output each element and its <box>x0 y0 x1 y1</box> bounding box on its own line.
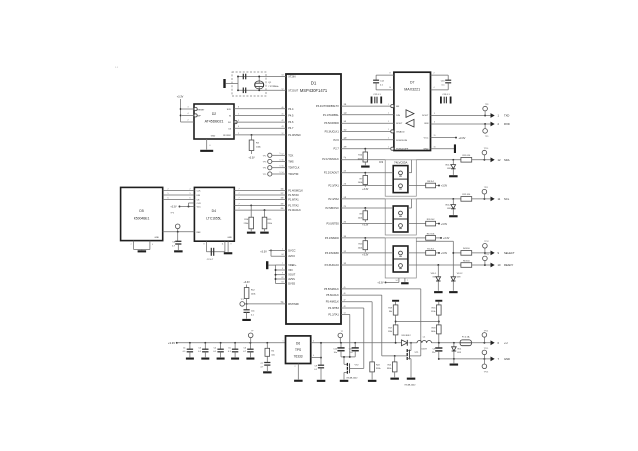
svg-text:VD1.1: VD1.1 <box>431 273 437 275</box>
svg-text:28: 28 <box>345 138 347 140</box>
svg-text:TP11: TP11 <box>484 187 488 189</box>
svg-text:SO: SO <box>228 122 231 124</box>
svg-text:2: 2 <box>295 366 296 368</box>
svg-text:6: 6 <box>168 197 169 199</box>
svg-text:GND: GND <box>211 136 216 138</box>
svg-text:XT2OUT: XT2OUT <box>288 88 298 92</box>
svg-text:D1: D1 <box>311 81 317 86</box>
svg-text:LTC1655L: LTC1655L <box>206 217 221 221</box>
svg-text:20: 20 <box>281 208 283 210</box>
svg-text:6: 6 <box>190 197 191 199</box>
svg-text:FORCEON: FORCEON <box>396 140 407 142</box>
svg-text:5: 5 <box>280 172 281 174</box>
svg-text:P1.0/STE0: P1.0/STE0 <box>288 133 301 137</box>
svg-text:GND: GND <box>227 237 232 239</box>
svg-text:R6 610: R6 610 <box>463 260 471 262</box>
svg-text:18: 18 <box>281 197 283 199</box>
svg-text:2: 2 <box>345 222 346 224</box>
svg-text:F1 0.1A: F1 0.1A <box>462 336 470 339</box>
svg-text:RST/NMI: RST/NMI <box>288 302 299 306</box>
svg-text:TP10: TP10 <box>484 148 489 150</box>
svg-text:7: 7 <box>407 280 408 282</box>
svg-text:SDA: SDA <box>504 158 510 162</box>
svg-text:11: 11 <box>345 104 347 106</box>
svg-text:P5.6/ACLK: P5.6/ACLK <box>326 293 339 297</box>
svg-text:SELECT: SELECT <box>504 251 515 255</box>
svg-text:8: 8 <box>238 107 239 109</box>
svg-text:7.3728MHz: 7.3728MHz <box>268 86 278 88</box>
svg-text:GND: GND <box>155 237 160 239</box>
svg-text:5: 5 <box>280 159 281 161</box>
svg-text:6: 6 <box>434 122 435 124</box>
svg-text:SCL: SCL <box>504 197 510 201</box>
svg-text:P3.0/STE0: P3.0/STE0 <box>326 222 339 226</box>
svg-text:GND: GND <box>423 149 428 151</box>
svg-text:READY: READY <box>504 263 513 267</box>
svg-text:2: 2 <box>168 189 169 191</box>
svg-text:+3.3V: +3.3V <box>459 136 466 140</box>
svg-text:7: 7 <box>131 244 132 246</box>
svg-text:CLR: CLR <box>197 203 202 205</box>
svg-text:1: 1 <box>345 206 346 208</box>
svg-text:R12 610: R12 610 <box>462 194 471 196</box>
svg-text:17: 17 <box>281 193 283 195</box>
svg-text:IRLML2402: IRLML2402 <box>405 384 417 386</box>
svg-text:XIN: XIN <box>288 268 292 272</box>
svg-text:GND: GND <box>504 357 510 361</box>
svg-text:D2: D2 <box>212 112 216 116</box>
svg-text:R4 610: R4 610 <box>463 248 471 250</box>
svg-text:D7: D7 <box>410 81 415 85</box>
svg-text:P5.4/MCLK: P5.4/MCLK <box>326 300 339 304</box>
svg-text:10: 10 <box>498 263 501 267</box>
svg-text:TCK: TCK <box>288 153 293 157</box>
svg-text:TDO/TDI: TDO/TDI <box>288 172 298 176</box>
svg-text:1: 1 <box>388 138 389 140</box>
svg-text:4: 4 <box>238 126 239 128</box>
svg-text:1: 1 <box>388 129 389 131</box>
svg-text:+3.3V: +3.3V <box>443 237 450 240</box>
svg-text:C13 0.1: C13 0.1 <box>442 94 450 96</box>
svg-text:P2.1/TAINCLK: P2.1/TAINCLK <box>322 157 339 161</box>
svg-text:+3.3V: +3.3V <box>260 251 267 254</box>
svg-text:4: 4 <box>152 244 153 246</box>
svg-text:R13 10k: R13 10k <box>427 234 436 236</box>
svg-text:5: 5 <box>168 193 169 195</box>
svg-text:R20 2k2: R20 2k2 <box>427 219 436 221</box>
svg-text:5: 5 <box>313 340 314 342</box>
svg-text:CLK: CLK <box>197 191 202 193</box>
svg-text:TP13: TP13 <box>484 254 489 256</box>
svg-text:+U: +U <box>504 341 508 345</box>
svg-text:4: 4 <box>313 355 314 357</box>
svg-text:MSP430F1471: MSP430F1471 <box>300 88 328 93</box>
svg-text:P1.1/TA0/BSL: P1.1/TA0/BSL <box>323 113 340 117</box>
svg-text:D3: D3 <box>379 160 383 164</box>
svg-text:8: 8 <box>204 244 205 246</box>
svg-text:C2 4.7: C2 4.7 <box>207 259 214 261</box>
svg-text:7: 7 <box>239 193 240 195</box>
svg-text:XOUT: XOUT <box>288 273 296 277</box>
svg-text:VD1.2: VD1.2 <box>457 273 463 275</box>
svg-text:1: 1 <box>238 113 239 115</box>
svg-text:5: 5 <box>434 113 435 115</box>
svg-text:3: 3 <box>188 107 189 109</box>
svg-text:7: 7 <box>239 203 240 205</box>
svg-text:2: 2 <box>434 73 435 75</box>
svg-text:74LVC03A: 74LVC03A <box>394 161 407 165</box>
svg-text:P4.4: P4.4 <box>288 107 294 111</box>
svg-text:DVCC: DVCC <box>288 248 295 252</box>
svg-text:VCC: VCC <box>424 138 429 140</box>
svg-text:R11 610: R11 610 <box>462 155 471 157</box>
svg-text:P1.4/SMCLK: P1.4/SMCLK <box>288 189 303 193</box>
svg-text:+3.3V: +3.3V <box>248 156 255 159</box>
svg-text:VREF+: VREF+ <box>288 263 297 267</box>
svg-text:VD2.1: VD2.1 <box>445 164 451 166</box>
svg-text:VD3 8012: VD3 8012 <box>401 335 411 337</box>
svg-text:P2.4/TA2: P2.4/TA2 <box>328 197 339 201</box>
svg-text:10: 10 <box>389 87 391 89</box>
svg-text:TP9: TP9 <box>485 136 488 138</box>
svg-text:DOUT: DOUT <box>422 115 429 117</box>
svg-text:IRLML2402: IRLML2402 <box>347 377 359 379</box>
svg-text:AVCC: AVCC <box>288 254 295 258</box>
svg-text:1: 1 <box>283 340 284 342</box>
svg-text:TMS: TMS <box>288 160 294 164</box>
svg-text:EN: EN <box>396 106 399 108</box>
svg-text:16: 16 <box>434 146 436 148</box>
svg-text:2: 2 <box>190 189 191 191</box>
svg-text:MAX3221: MAX3221 <box>404 88 420 92</box>
svg-text:+3.3V: +3.3V <box>362 224 369 226</box>
svg-text:SCK: SCK <box>227 109 232 111</box>
svg-text:+3.3V: +3.3V <box>168 341 175 345</box>
svg-text:5: 5 <box>280 153 281 155</box>
svg-text:2: 2 <box>345 183 346 185</box>
svg-text:+3.3V: +3.3V <box>177 95 184 98</box>
svg-text:1: 1 <box>345 171 346 173</box>
svg-text:R1 2k2: R1 2k2 <box>427 249 434 251</box>
svg-text:1: 1 <box>345 251 346 253</box>
svg-text:DVSS: DVSS <box>288 282 295 286</box>
svg-text:ROUT: ROUT <box>396 123 403 125</box>
svg-text:P4.5: P4.5 <box>288 113 294 117</box>
svg-text:VCC: VCC <box>197 207 202 209</box>
svg-text:+3.3V: +3.3V <box>362 189 369 191</box>
svg-text:P5.3/UCLK1: P5.3/UCLK1 <box>325 129 340 133</box>
svg-text:P1.7/TA2: P1.7/TA2 <box>288 203 299 207</box>
svg-text:1: 1 <box>388 147 389 149</box>
svg-text:INVALID: INVALID <box>396 130 405 133</box>
svg-text:P2.3/TA1: P2.3/TA1 <box>328 184 339 188</box>
svg-text:+3.3V: +3.3V <box>441 252 448 255</box>
svg-text:76333: 76333 <box>294 355 303 359</box>
svg-text:+3.3V: +3.3V <box>441 223 448 226</box>
svg-text:DIN: DIN <box>197 195 201 197</box>
svg-text:1: 1 <box>388 113 389 115</box>
svg-text:VD2.2: VD2.2 <box>445 204 451 206</box>
svg-text:D5: D5 <box>139 209 143 213</box>
svg-text:AVSS: AVSS <box>288 277 295 281</box>
svg-text:9: 9 <box>345 121 346 123</box>
svg-text:4: 4 <box>188 113 189 115</box>
svg-text:9: 9 <box>238 120 239 122</box>
svg-text:3: 3 <box>345 236 346 238</box>
svg-text:P3.1/SIMO0: P3.1/SIMO0 <box>325 236 339 240</box>
svg-text:TDI/TCLK: TDI/TCLK <box>288 166 300 170</box>
svg-text:22u: 22u <box>432 352 435 354</box>
svg-text:2: 2 <box>238 133 239 135</box>
svg-text:XT2IN: XT2IN <box>288 75 295 79</box>
svg-text:10u: 10u <box>334 352 337 354</box>
svg-text:P2.2/CAOUT: P2.2/CAOUT <box>324 171 339 175</box>
svg-text:11: 11 <box>222 244 224 246</box>
svg-text:P3.2/SOMI0: P3.2/SOMI0 <box>325 251 339 255</box>
svg-text:DIN: DIN <box>396 115 400 117</box>
svg-text:12: 12 <box>498 158 501 162</box>
svg-text:K5004BE1: K5004BE1 <box>134 217 150 221</box>
svg-text:5: 5 <box>280 166 281 168</box>
svg-text:P1.6/TA1: P1.6/TA1 <box>288 198 299 202</box>
svg-text:2: 2 <box>345 263 346 265</box>
svg-text:7: 7 <box>239 189 240 191</box>
svg-text:15: 15 <box>434 135 436 137</box>
svg-text:7: 7 <box>239 208 240 210</box>
svg-text:3: 3 <box>345 197 346 199</box>
svg-text:+3.3V: +3.3V <box>243 281 250 284</box>
svg-text:1: 1 <box>388 104 389 106</box>
svg-text:RIN: RIN <box>425 123 429 125</box>
svg-text:TP14: TP14 <box>484 330 489 332</box>
svg-text:RESET: RESET <box>198 109 206 111</box>
svg-text:P1.2/TA1: P1.2/TA1 <box>328 313 339 317</box>
svg-text:2: 2 <box>188 120 189 122</box>
svg-text:6: 6 <box>210 145 211 147</box>
svg-text:TP1: TP1 <box>240 299 243 301</box>
svg-text:P2.0/ACLK: P2.0/ACLK <box>288 208 301 212</box>
svg-text:5: 5 <box>190 193 191 195</box>
svg-text:P2.6: P2.6 <box>334 138 340 142</box>
svg-text:58: 58 <box>281 302 283 304</box>
svg-text:TP16: TP16 <box>484 371 489 373</box>
svg-text:P4.3/TB3: P4.3/TB3 <box>328 306 339 310</box>
svg-text:D6: D6 <box>296 342 300 346</box>
svg-text:C12 0.1: C12 0.1 <box>373 94 381 96</box>
svg-text:+3.3V: +3.3V <box>441 185 448 188</box>
svg-text:P1.5/TA0: P1.5/TA0 <box>288 193 299 197</box>
svg-text:P3.5/URXD0: P3.5/URXD0 <box>324 121 339 125</box>
svg-text:P3.3/UCLK0: P3.3/UCLK0 <box>325 263 340 267</box>
svg-text:TP15: TP15 <box>484 348 489 350</box>
svg-text:TPS: TPS <box>295 348 301 352</box>
svg-text:P4.7: P4.7 <box>288 126 294 130</box>
svg-text:3: 3 <box>345 158 346 160</box>
svg-text:P2.7: P2.7 <box>334 147 340 151</box>
svg-text:7: 7 <box>239 197 240 199</box>
svg-text:P2.5/ROSC: P2.5/ROSC <box>325 206 338 210</box>
svg-text:4: 4 <box>434 87 435 89</box>
svg-text:R8 2k2: R8 2k2 <box>427 181 434 183</box>
svg-text:16: 16 <box>281 189 283 191</box>
svg-text:9: 9 <box>231 244 232 246</box>
svg-text:8: 8 <box>390 73 391 75</box>
svg-text:AT45DB021: AT45DB021 <box>205 120 224 124</box>
svg-text:29: 29 <box>345 147 347 149</box>
svg-text:1: 1 <box>388 121 389 123</box>
svg-text:14: 14 <box>396 280 398 282</box>
svg-text:P5.5/SMCLK: P5.5/SMCLK <box>324 287 339 291</box>
svg-text:D4: D4 <box>212 209 216 213</box>
svg-text:TP12: TP12 <box>484 241 489 243</box>
svg-text:13: 13 <box>345 113 347 115</box>
svg-text:TP8: TP8 <box>485 104 488 106</box>
svg-text:P3.4/UTXD0/BSLTX: P3.4/UTXD0/BSLTX <box>316 104 339 108</box>
svg-text:19: 19 <box>281 203 283 205</box>
svg-text:10mH: 10mH <box>421 348 427 350</box>
svg-text:+3.3V: +3.3V <box>170 207 177 209</box>
svg-text:TXD: TXD <box>504 114 509 118</box>
svg-text:+3.3V: +3.3V <box>362 254 369 256</box>
svg-text:RDY/BSY: RDY/BSY <box>223 135 232 137</box>
svg-text:FORCEOFF: FORCEOFF <box>396 149 409 151</box>
svg-text:P4.6: P4.6 <box>288 120 294 124</box>
svg-text:RXD: RXD <box>504 122 510 126</box>
svg-text:12: 12 <box>345 129 347 131</box>
svg-text:+3.3V: +3.3V <box>377 282 384 284</box>
